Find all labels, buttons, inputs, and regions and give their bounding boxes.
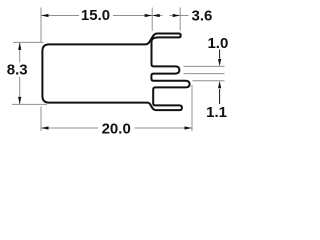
arrow 20.0 left xyxy=(41,126,49,129)
extension line left x=41 (bottom, for 20.0) xyxy=(40,107,42,132)
dimension leader 1.0 (down arrow at x=219.6) xyxy=(219,50,221,59)
dimension line 8.3 (x=19.7) xyxy=(19,42,21,62)
extension line x=180 (right of 3.6) xyxy=(179,8,181,31)
extension line y=104.4 (bottom of 8.3) xyxy=(12,103,47,105)
arrow 1.1 up xyxy=(218,81,221,89)
part outline: sheet-metal clip side view xyxy=(42,34,189,111)
arrow 1.0 down xyxy=(218,59,221,67)
arrow 3.6 left xyxy=(152,14,160,17)
svg-text:20.0: 20.0 xyxy=(102,120,131,137)
svg-text:15.0: 15.0 xyxy=(81,7,110,24)
arrow 8.3 top xyxy=(18,42,21,50)
extension line x=152.2 (for 15.0 / 3.6) xyxy=(151,8,153,32)
svg-text:8.3: 8.3 xyxy=(7,62,28,79)
arrow 15.0 left xyxy=(41,14,49,17)
extension line y=73.6 (ledge bottom, for 1.0/1.1) xyxy=(184,73,225,75)
arrow 3.6 right xyxy=(173,14,181,17)
arrow 8.3 bottom xyxy=(18,97,21,105)
extension line x=190.5 (right, for 20.0) xyxy=(191,85,193,131)
dimension line 3.6 (y=15.4) xyxy=(152,15,162,17)
extension line y=42.4 (top of 8.3) xyxy=(13,41,44,43)
dimension line 15.0 (y=15.4) xyxy=(41,15,79,17)
arrow 15.0 right xyxy=(145,14,153,17)
dimension line 20.0 (y=127.6) xyxy=(41,127,98,129)
extension line y=80.8 (tongue top, for 1.1) xyxy=(193,80,225,82)
arrow 20.0 right xyxy=(185,126,193,129)
svg-text:3.6: 3.6 xyxy=(192,8,213,25)
svg-text:1.0: 1.0 xyxy=(207,35,228,52)
extension line left x=41 (top, for 15.0) xyxy=(40,8,42,43)
dimension leader 1.1 (up arrow at x=219.6) xyxy=(219,89,221,104)
svg-text:1.1: 1.1 xyxy=(206,104,227,121)
extension line y=66.4 (ledge top, for 1.0) xyxy=(184,65,225,67)
